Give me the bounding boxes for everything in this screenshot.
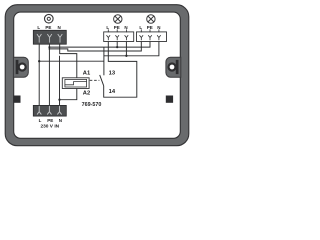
svg-text:L: L — [106, 25, 109, 30]
svg-text:PE: PE — [147, 25, 153, 30]
svg-text:PE: PE — [114, 25, 120, 30]
svg-text:14: 14 — [109, 89, 116, 95]
svg-text:L: L — [139, 25, 142, 30]
svg-text:N: N — [157, 25, 160, 30]
svg-text:N: N — [124, 25, 127, 30]
svg-text:N: N — [59, 118, 62, 123]
svg-text:L: L — [39, 118, 42, 123]
svg-text:PE: PE — [45, 25, 51, 30]
svg-text:769-570: 769-570 — [82, 102, 102, 108]
svg-text:A2: A2 — [83, 90, 90, 96]
svg-text:230 V IN: 230 V IN — [40, 123, 59, 129]
svg-text:A1: A1 — [83, 70, 91, 76]
svg-text:L: L — [37, 25, 40, 30]
svg-text:N: N — [57, 25, 60, 30]
svg-text:PE: PE — [47, 118, 53, 123]
svg-text:13: 13 — [109, 71, 116, 77]
